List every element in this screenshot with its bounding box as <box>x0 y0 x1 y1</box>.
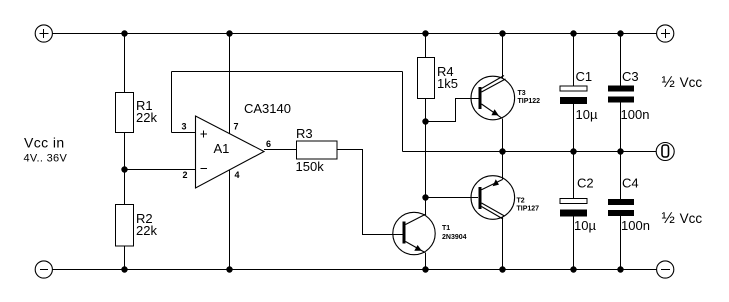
junction: C4 bottom on rail <box>617 266 623 272</box>
wire: R2 to bottom rail <box>124 246 126 270</box>
wire: base node to T3 base <box>426 99 480 122</box>
wire: T3 collector to top rail <box>502 34 504 79</box>
resistor R4 1k5 <box>418 58 458 99</box>
junction: pin 7 on top rail <box>226 30 232 36</box>
wire: T2 collector to bottom rail <box>502 217 504 270</box>
wire: T3 emitter to output rail <box>502 119 504 152</box>
svg-text:7: 7 <box>234 122 239 132</box>
junction: R4 bottom base node <box>422 118 428 124</box>
wire: feedback horizontal top <box>172 71 403 73</box>
junction: pin 4 on bottom rail <box>226 266 232 272</box>
junction: C3 top on rail <box>617 30 623 36</box>
wire: op-amp output pin 6 to R3 <box>264 149 297 151</box>
svg-text:Vcc in: Vcc in <box>24 135 65 151</box>
wire: output rail to C2 <box>573 152 575 199</box>
wire: left divider branch from top rail to R1 <box>124 34 126 93</box>
resistor R2 22k <box>116 205 158 247</box>
wire: feedback down to output rail <box>402 72 404 152</box>
svg-text:22k: 22k <box>136 223 157 238</box>
terminal: - output (bottom right) <box>657 261 674 278</box>
terminal: + output (top right) <box>657 25 674 42</box>
wire: R3 to T1 base <box>337 150 403 235</box>
junction: divider midpoint node <box>121 166 127 172</box>
transistor T3 TIP122 <box>471 76 540 120</box>
wire: op-amp pin 3 stub <box>172 132 196 134</box>
svg-text:22k: 22k <box>136 110 157 125</box>
junction: T1 collector / T2 base node <box>422 194 428 200</box>
wire: C2 to bottom rail <box>573 217 575 270</box>
wire: C3 to output rail <box>620 103 622 152</box>
svg-text:T1: T1 <box>442 225 450 232</box>
junction: divider bottom on rail <box>121 266 127 272</box>
svg-text:C1: C1 <box>576 69 593 84</box>
wire: feedback vertical left <box>171 72 173 133</box>
wire: top supply rail <box>53 33 657 35</box>
transistor T1 2N3904 <box>393 212 467 254</box>
junction: divider top on rail <box>121 30 127 36</box>
svg-text:C2: C2 <box>577 176 594 191</box>
svg-text:100n: 100n <box>621 218 650 233</box>
svg-text:T3: T3 <box>518 90 526 97</box>
wire: T1 emitter to bottom rail <box>425 253 427 270</box>
wire: divider midpoint to op-amp pin 2 <box>125 169 196 171</box>
wire: C4 to bottom rail <box>620 216 622 270</box>
svg-text:1k5: 1k5 <box>437 76 458 91</box>
resistor R3 150k <box>296 126 338 174</box>
junction: C2 bottom on rail <box>570 266 576 272</box>
junction: R4 top on rail <box>422 30 428 36</box>
svg-text:150k: 150k <box>296 159 325 174</box>
svg-text:4: 4 <box>235 170 240 180</box>
junction: C1 bottom on output rail <box>570 148 576 154</box>
wire: top rail to C1 <box>573 34 575 87</box>
svg-text:3: 3 <box>182 122 187 132</box>
wire: divider midpoint to R2 <box>124 170 126 205</box>
wire: top rail to R4 <box>425 34 427 58</box>
svg-text:½ Vcc: ½ Vcc <box>662 74 703 91</box>
terminal: + input (top left) <box>35 25 52 42</box>
wire: C1 to output rail <box>573 104 575 152</box>
svg-text:TIP127: TIP127 <box>517 206 540 213</box>
wire: pin 4 to bottom rail <box>229 170 231 270</box>
svg-text:T2: T2 <box>517 198 525 205</box>
junction: emitters on output rail <box>499 148 505 154</box>
terminal: 0 output (middle right) <box>656 143 674 161</box>
svg-text:A1: A1 <box>214 141 230 156</box>
junction: T1 emitter on bottom rail <box>422 266 428 272</box>
wire: output rail to C4 <box>620 152 622 200</box>
wire: T2 emitter to output rail <box>502 152 504 180</box>
resistor R1 22k <box>116 93 158 133</box>
junction: T3 collector on top rail <box>499 30 505 36</box>
svg-text:C3: C3 <box>622 69 639 84</box>
junction: C3 bottom on output rail <box>617 148 623 154</box>
svg-text:C4: C4 <box>622 176 639 191</box>
wire: R4 to base node <box>425 99 427 122</box>
op-amp A1 CA3140 <box>182 101 291 188</box>
junction: T2 collector on bottom rail <box>499 266 505 272</box>
junction: C1 top on rail <box>570 30 576 36</box>
svg-text:CA3140: CA3140 <box>244 101 291 116</box>
wire: pin 7 to top rail <box>229 34 231 135</box>
svg-text:6: 6 <box>266 139 271 149</box>
terminal: - input (bottom left) <box>35 261 52 278</box>
capacitor C2 10u electrolytic <box>560 176 596 234</box>
capacitor C4 100n <box>608 176 650 234</box>
svg-text:10µ: 10µ <box>576 107 598 122</box>
capacitor C3 100n <box>608 69 649 122</box>
wire: bottom supply rail <box>53 269 657 271</box>
svg-text:2: 2 <box>183 170 188 180</box>
capacitor C1 10u electrolytic <box>560 69 598 122</box>
wire: base node down to T1 collector node (crosses output rail) <box>425 122 427 198</box>
wire: top rail to C3 <box>620 34 622 86</box>
transistor T2 TIP127 <box>471 176 539 220</box>
svg-text:4V.. 36V: 4V.. 36V <box>24 153 68 165</box>
svg-text:100n: 100n <box>621 107 650 122</box>
svg-text:R3: R3 <box>296 126 313 141</box>
svg-text:TIP122: TIP122 <box>518 98 541 105</box>
wire: output middle rail <box>403 151 657 153</box>
wire: node to T2 base <box>426 197 479 199</box>
svg-text:2N3904: 2N3904 <box>442 234 467 241</box>
svg-text:10µ: 10µ <box>574 218 596 233</box>
wire: T1 collector up to node <box>425 198 427 216</box>
wire: R1 to divider midpoint <box>124 133 126 170</box>
svg-text:½ Vcc: ½ Vcc <box>662 210 703 227</box>
